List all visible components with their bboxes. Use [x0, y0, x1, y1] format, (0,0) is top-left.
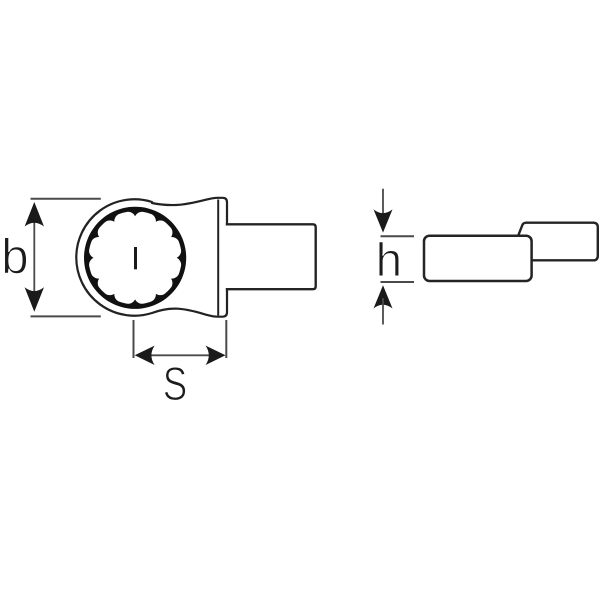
label h — [379, 242, 399, 276]
dimension h: bottom shaft — [382, 298, 384, 325]
dimension h: arrow down — [374, 209, 393, 232]
flange face line — [217, 200, 219, 316]
dimension b: bottom tick — [31, 315, 101, 317]
dimension h: bottom tick — [381, 281, 415, 283]
tang (front view) — [226, 224, 316, 289]
label S — [164, 367, 185, 401]
dimension S: right extension line — [225, 320, 227, 358]
tang root mask — [225, 226, 230, 288]
12-point black ring — [84, 207, 186, 309]
dimension b: top tick — [31, 198, 101, 200]
dimension h: arrow up — [374, 285, 393, 308]
dimension b: shaft — [33, 210, 35, 305]
side view: rear block — [509, 223, 598, 261]
side view: tang bar — [424, 236, 532, 281]
ring head outline with neck and flange (front view) — [76, 198, 227, 317]
label b — [4, 237, 26, 273]
dimension S: left extension line — [133, 320, 135, 358]
dimension b: arrow up — [25, 202, 44, 227]
dimension S: line — [150, 354, 210, 356]
dimension h: top tick — [381, 235, 415, 237]
dimension b: arrow down — [25, 287, 44, 312]
dimension h: top shaft — [382, 189, 384, 220]
dimension S: arrow left — [135, 346, 155, 365]
dimension S: arrow right — [206, 346, 226, 365]
center mark — [134, 247, 137, 269]
